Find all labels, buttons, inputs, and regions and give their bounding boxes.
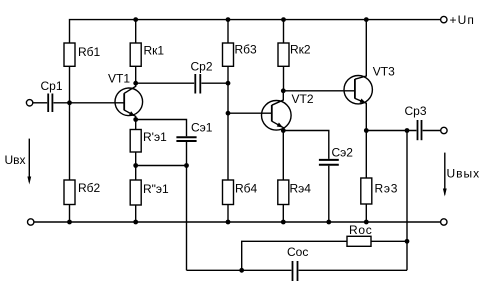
svg-text:Cр3: Cр3 (405, 104, 427, 118)
wire Rb1 to input node (69, 66, 71, 180)
wire VT1 collector to Cp2 (136, 82, 195, 84)
wire Rk1 to VT1 collector (135, 66, 137, 83)
resistor Re4 (282, 131, 284, 181)
node VT1 emitter junction (133, 117, 138, 122)
resistor Rk2 (283, 20, 285, 43)
wire VT2 emitter to Ce2 (283, 131, 329, 159)
arrow Uvyx output (443, 153, 447, 197)
node junction Roc right (405, 239, 410, 244)
node junction rail Rb2 (67, 220, 72, 225)
svg-text:Cэ2: Cэ2 (332, 146, 354, 160)
svg-text:Rэ4: Rэ4 (290, 182, 312, 196)
wire Ce1 to node (186, 142, 188, 166)
wire top supply rail (70, 20, 441, 43)
resistor Roc (347, 236, 371, 246)
svg-text:Rб2: Rб2 (78, 181, 101, 195)
node VT2 collector junction (281, 88, 286, 93)
wire feedback tap down (186, 166, 188, 271)
wire Cp3 to output (423, 130, 441, 132)
wire VT1 emitter to Ce1 (136, 120, 187, 137)
node junction rail Re3 (364, 220, 369, 225)
svg-text:Rк2: Rк2 (290, 43, 311, 57)
svg-text:Rб3: Rб3 (235, 43, 258, 57)
wire Re4 to rail (282, 205, 284, 223)
svg-text:Rб4: Rб4 (235, 182, 258, 196)
svg-text:R"э1: R"э1 (143, 182, 169, 196)
svg-text:Cос: Cос (287, 245, 308, 259)
node junction top Rb3 (226, 17, 231, 22)
node junction rail Rb4 (226, 220, 231, 225)
svg-text:Cэ1: Cэ1 (191, 121, 213, 135)
svg-text:VT1: VT1 (108, 72, 130, 86)
svg-text:R'э1: R'э1 (143, 130, 167, 144)
svg-text:Uвх: Uвх (5, 153, 26, 167)
wire Coc right lead (299, 269, 407, 271)
capacitor Cp2 (195, 74, 200, 94)
wire Roc right lead (371, 240, 407, 242)
wire Rb4 to rail (227, 205, 229, 223)
node VT1 collector junction (133, 81, 138, 86)
wire Rb2 to rail (69, 205, 71, 223)
node junction Cp1 / divider (67, 100, 72, 105)
wire VT3 emitter to Cp3 (366, 130, 416, 132)
wire bottom ground rail (34, 221, 441, 223)
node junction rail R"e1 (133, 220, 138, 225)
capacitor Coc (293, 261, 298, 281)
terminal bottom left (28, 219, 34, 225)
arrow Uvx input (27, 139, 31, 185)
node junction VT2 base divider (226, 111, 231, 116)
transistor VT3 (344, 20, 372, 131)
wire Rk2 to VT2 collector (283, 66, 285, 91)
wire R"e1 to rail (135, 205, 137, 222)
wire Ce2 to rail (328, 166, 330, 222)
resistor Rb1 (64, 43, 75, 66)
terminal bottom right (441, 219, 447, 225)
svg-text:+Uп: +Uп (450, 13, 475, 27)
resistor Re3 (365, 131, 367, 179)
node junction top VT3 collector (364, 17, 369, 22)
resistor Rb2 (64, 180, 75, 205)
wire feedback vertical right (406, 131, 408, 271)
svg-text:Cр1: Cр1 (41, 79, 63, 93)
svg-text:Rб1: Rб1 (78, 45, 101, 59)
svg-text:Rк1: Rк1 (144, 44, 165, 58)
svg-text:Rос: Rос (349, 223, 372, 237)
transistor VT1 (115, 83, 143, 119)
resistor Rb4 (223, 180, 234, 205)
svg-text:Cр2: Cр2 (191, 60, 213, 74)
resistor R'e1 (135, 120, 137, 130)
wire node to Ce1 bottom (136, 165, 187, 167)
capacitor Ce2 (319, 160, 339, 165)
svg-text:VT2: VT2 (292, 92, 314, 106)
terminal +Un (441, 16, 447, 22)
wire VT2 collector to VT3 base (283, 90, 355, 92)
node junction Coc/Roc left (239, 268, 244, 273)
transistor VT2 (262, 91, 292, 131)
node junction feedback tap (405, 128, 410, 133)
capacitor Cp3 (418, 120, 422, 140)
node junction rail Ce2 (326, 220, 331, 225)
wire Coc left lead (187, 269, 292, 271)
wire input to Cp1 (33, 102, 47, 104)
node VT3 emitter junction (364, 128, 369, 133)
node junction rail Re4 (281, 220, 286, 225)
capacitor Cp1 (48, 94, 52, 113)
resistor Rk1 (135, 20, 137, 43)
wire Roc left lead (242, 241, 347, 270)
node junction Ce1 bottom (184, 163, 189, 168)
wire Cp2 to Rb3 node (201, 82, 228, 84)
terminal input (26, 100, 32, 106)
node VT2 emitter junction (281, 128, 286, 133)
wire Cp1 to VT1 base (54, 102, 125, 104)
svg-text:VT3: VT3 (373, 65, 395, 79)
resistor Rb3 (227, 20, 229, 43)
node junction top Rk2 (281, 17, 286, 22)
capacitor Ce1 (176, 137, 196, 141)
svg-text:Uвых: Uвых (447, 166, 481, 180)
wire Re3 to rail (365, 204, 367, 222)
wire divider to VT2 base (228, 112, 272, 114)
terminal output (441, 127, 447, 133)
svg-text:Rэ3: Rэ3 (375, 182, 399, 196)
node junction R'e1/R"e1 (133, 163, 138, 168)
wire Rb3 to Rb4 divider (227, 66, 229, 180)
resistor R"e1 (130, 180, 141, 205)
node junction top Rk1 (133, 17, 138, 22)
wire R'e1 to node (135, 152, 137, 180)
node junction Cp2/Rb3 (226, 81, 231, 86)
